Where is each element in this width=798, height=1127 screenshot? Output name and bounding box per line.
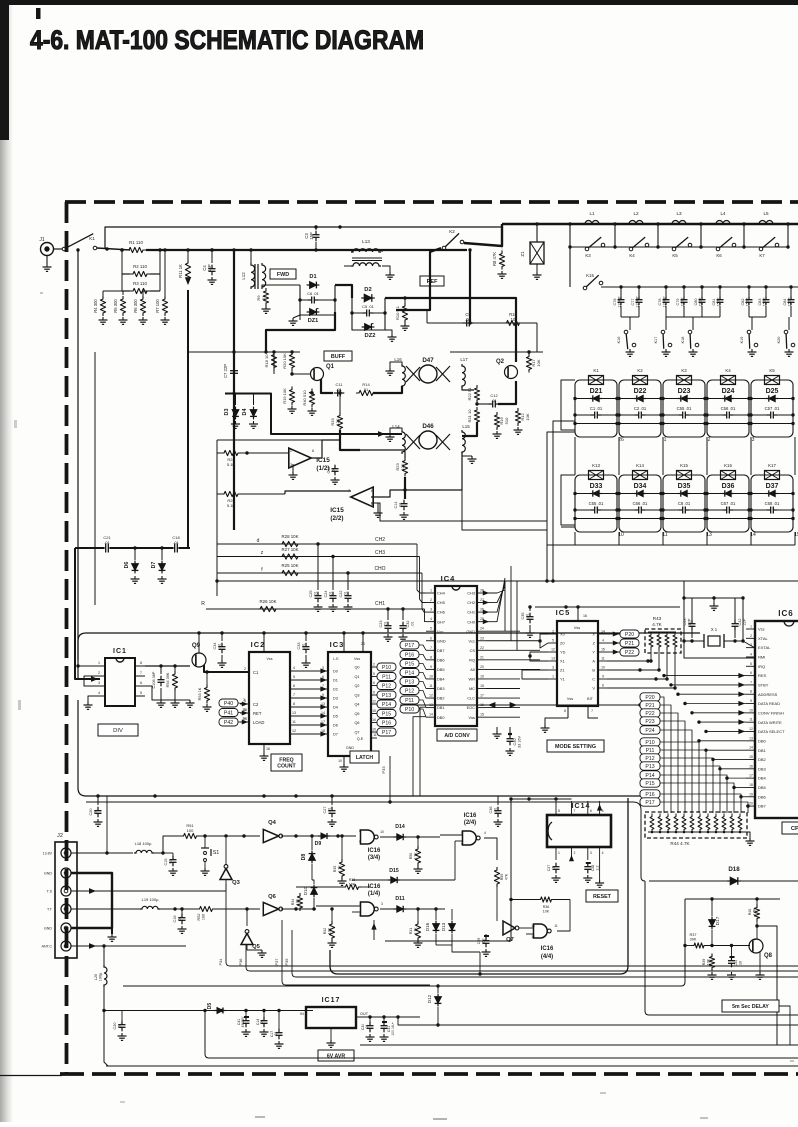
J2 pin GND xyxy=(61,923,71,933)
capacitor C12 .01 xyxy=(492,401,494,408)
svg-text:4: 4 xyxy=(602,851,604,855)
svg-text:LATCH: LATCH xyxy=(356,755,373,761)
tag column P17-P10 to IC4 xyxy=(400,641,419,649)
wires crystal to CPU pins xyxy=(743,641,755,648)
svg-text:WR: WR xyxy=(469,677,476,682)
svg-text:P22: P22 xyxy=(645,711,654,717)
svg-text:6: 6 xyxy=(293,684,295,688)
tag P41 xyxy=(219,709,238,717)
svg-text:P24: P24 xyxy=(645,728,654,734)
svg-text:GND: GND xyxy=(44,927,52,931)
svg-text:BUFF: BUFF xyxy=(331,354,346,360)
svg-text:5: 5 xyxy=(430,627,432,631)
svg-text:R1 110: R1 110 xyxy=(129,240,143,245)
IC6 pin 13 DB0 xyxy=(746,740,755,742)
svg-text:BIT: BIT xyxy=(587,697,594,701)
svg-text:C14.01: C14.01 xyxy=(394,502,403,509)
svg-text:R11 1K: R11 1K xyxy=(178,264,183,278)
svg-text:R44 4.7K: R44 4.7K xyxy=(670,841,690,846)
svg-text:P14: P14 xyxy=(405,670,414,676)
resistor R33 12K xyxy=(337,413,342,432)
wire R1 to right xyxy=(146,249,467,251)
IC4 pin R20 xyxy=(477,668,486,670)
svg-text:C34.01: C34.01 xyxy=(213,643,222,650)
IC4 pin R22 xyxy=(477,649,486,651)
IC6 pin 20 DB7 xyxy=(746,805,755,807)
svg-text:R3410K: R3410K xyxy=(291,898,299,905)
resistor R27 10K xyxy=(279,554,301,559)
svg-text:D11: D11 xyxy=(395,896,404,902)
svg-text:19: 19 xyxy=(749,792,753,796)
svg-text:17: 17 xyxy=(480,694,484,698)
tag P17 xyxy=(640,798,660,806)
capacitor C22 .01 xyxy=(345,595,352,597)
capacitor C14 .01 xyxy=(263,1011,265,1019)
diode D21 xyxy=(593,395,599,401)
IC5 pin Y xyxy=(598,651,607,653)
svg-text:D10: D10 xyxy=(303,886,308,895)
svg-text:Y1: Y1 xyxy=(560,677,565,682)
diode D13 xyxy=(449,924,456,931)
svg-text:L3: L3 xyxy=(676,211,682,216)
svg-text:K4: K4 xyxy=(725,368,731,373)
dashed border bottom xyxy=(60,1072,798,1076)
svg-text:23: 23 xyxy=(480,636,484,640)
switch S1 pushbutton xyxy=(204,841,206,848)
capacitor C44 10 xyxy=(731,946,733,959)
svg-text:R27 10K: R27 10K xyxy=(281,547,298,552)
svg-text:RET: RET xyxy=(253,711,262,716)
IC4 pin L14 xyxy=(426,716,435,718)
svg-text:C65 .01: C65 .01 xyxy=(589,501,604,506)
svg-text:3: 3 xyxy=(590,851,592,855)
ground C106 R54 xyxy=(160,700,162,703)
svg-text:D2: D2 xyxy=(364,287,371,293)
IC4 pin R18 xyxy=(477,688,486,690)
switch K19 xyxy=(751,317,753,330)
wire FWD det rails xyxy=(262,285,300,287)
Vcc rail dots xyxy=(262,631,265,634)
R44 ground xyxy=(744,832,750,838)
svg-text:d: d xyxy=(257,538,260,544)
R44 bottom bus xyxy=(648,831,744,833)
svg-text:L5: L5 xyxy=(763,211,769,216)
dashed border left xyxy=(65,202,69,1074)
bold wire K2 to bus xyxy=(464,224,502,246)
resistor R28 10K xyxy=(279,541,301,546)
svg-text:R3 110: R3 110 xyxy=(133,281,147,286)
svg-text:P36: P36 xyxy=(238,959,243,966)
svg-text:Q6: Q6 xyxy=(268,894,277,900)
IC14 bottom pins xyxy=(555,847,557,860)
svg-text:18: 18 xyxy=(480,684,484,688)
relay cell K15/D35 xyxy=(663,475,705,532)
svg-text:1: 1 xyxy=(750,625,752,629)
svg-text:R52100: R52100 xyxy=(197,914,206,921)
bold wire R11 drop xyxy=(187,290,189,548)
long rail y1066 xyxy=(106,1065,798,1067)
IC4 pin R25 xyxy=(477,621,486,623)
svg-text:R16510: R16510 xyxy=(499,417,509,425)
IC5 pin V xyxy=(598,687,607,689)
svg-text:P20: P20 xyxy=(625,632,634,638)
bold vertical R22R21 xyxy=(476,385,478,387)
inductor L1 xyxy=(583,221,601,225)
svg-text:Vss: Vss xyxy=(267,657,273,661)
svg-text:Q1: Q1 xyxy=(326,364,335,370)
svg-text:X0: X0 xyxy=(560,632,566,637)
svg-text:2: 2 xyxy=(708,437,711,443)
wire opamp2 plus gnd xyxy=(371,503,378,510)
svg-text:P16: P16 xyxy=(382,720,391,726)
svg-text:K15: K15 xyxy=(680,463,688,468)
bold wire R23 to opamp2 xyxy=(404,477,406,499)
wire left bus v2 xyxy=(94,352,96,605)
svg-text:21: 21 xyxy=(480,655,484,659)
svg-text:IC5: IC5 xyxy=(556,608,571,617)
IC14 box xyxy=(547,815,611,847)
svg-text:C22.01: C22.01 xyxy=(339,591,348,598)
svg-text:T.T: T.T xyxy=(47,908,53,912)
svg-text:R3610K: R3610K xyxy=(349,878,356,886)
wire rail y580 to crystal rail xyxy=(683,581,685,598)
svg-text:Y: Y xyxy=(592,650,595,655)
switch K18 xyxy=(692,317,694,330)
bus drop 1 xyxy=(569,224,571,247)
svg-text:GH7: GH7 xyxy=(437,619,445,624)
svg-text:6: 6 xyxy=(373,681,375,685)
svg-text:R53 1K: R53 1K xyxy=(198,687,202,700)
IC4 pin L13 xyxy=(426,707,435,709)
dashed border top xyxy=(65,200,798,204)
svg-text:R2312K: R2312K xyxy=(395,463,405,471)
resistor R19 10K xyxy=(289,387,294,406)
svg-text:K18: K18 xyxy=(681,337,685,344)
svg-text:C8 .01: C8 .01 xyxy=(678,501,691,506)
diode D25 xyxy=(769,395,775,401)
svg-text:IC17: IC17 xyxy=(322,997,341,1004)
svg-text:P10: P10 xyxy=(405,707,414,713)
svg-text:12: 12 xyxy=(749,727,753,731)
svg-text:11: 11 xyxy=(554,924,558,928)
svg-text:B: B xyxy=(592,668,595,673)
svg-text:K3: K3 xyxy=(681,368,687,373)
svg-text:P22: P22 xyxy=(625,650,634,656)
svg-text:C23.01: C23.01 xyxy=(379,621,388,628)
resistor R23 12K xyxy=(402,458,407,477)
resistor R5 300 xyxy=(120,296,125,316)
resistor R44-7 xyxy=(698,814,702,833)
IC6 pin 10 CONV FINISH xyxy=(746,712,755,714)
IC5 pin Y1 xyxy=(548,678,557,680)
svg-text:J1: J1 xyxy=(39,237,45,243)
svg-text:R28 10K: R28 10K xyxy=(281,534,298,539)
IC5 pin Z0 xyxy=(548,642,557,644)
svg-text:P13: P13 xyxy=(405,679,414,685)
svg-text:L17: L17 xyxy=(460,357,468,362)
svg-text:DIV: DIV xyxy=(113,728,123,734)
svg-text:K15: K15 xyxy=(586,273,594,278)
wire C9 R15 row xyxy=(427,322,537,324)
svg-text:DATA SELECT: DATA SELECT xyxy=(758,729,785,734)
svg-text:S1: S1 xyxy=(213,850,220,856)
IC6 pin 16 DB3 xyxy=(746,768,755,770)
svg-text:C: C xyxy=(592,677,595,682)
svg-text:20: 20 xyxy=(749,802,753,806)
cell bus D25 xyxy=(751,423,793,425)
resistor R44-2 xyxy=(658,814,662,833)
wire NAND4 out xyxy=(557,900,570,932)
capacitor C57 xyxy=(770,412,772,419)
capacitor C9 .01 xyxy=(466,320,468,327)
svg-text:10: 10 xyxy=(380,830,384,834)
svg-text:4: 4 xyxy=(430,617,432,621)
IC6 pin 5 IRQ xyxy=(746,665,755,667)
matrix long bus row2 xyxy=(561,526,575,528)
bold left bus x234 xyxy=(233,250,235,530)
svg-text:14: 14 xyxy=(429,713,433,717)
svg-text:FREQ: FREQ xyxy=(279,757,293,763)
svg-text:IC2: IC2 xyxy=(251,640,266,649)
wire IC15 area to matrix row2 xyxy=(371,503,547,521)
J2 pin 13.8V xyxy=(61,848,71,858)
svg-text:YD: YD xyxy=(560,650,566,655)
svg-text:1: 1 xyxy=(430,589,432,593)
resistor R26 10K xyxy=(257,606,279,611)
IC4 box xyxy=(435,586,477,726)
bold wire L14 left xyxy=(376,433,402,435)
svg-text:GND: GND xyxy=(44,872,52,876)
wire top rail y227 xyxy=(105,227,502,249)
relay cell K3/D23 xyxy=(663,380,705,437)
svg-text:D16: D16 xyxy=(425,922,430,931)
svg-text:D35: D35 xyxy=(678,483,691,490)
arrow IC14 pin5 xyxy=(598,805,602,810)
wire rail y607 xyxy=(535,606,680,608)
wire reg input rail dots xyxy=(220,1009,223,1012)
svg-text:12: 12 xyxy=(372,700,376,704)
svg-text:CH5: CH5 xyxy=(437,600,445,605)
svg-text:C7 22P: C7 22P xyxy=(223,364,228,378)
transistor Q9 xyxy=(192,653,206,667)
fan wires tags to verticals xyxy=(660,697,664,813)
svg-text:D23: D23 xyxy=(678,388,691,395)
IC4 pin L12 xyxy=(426,697,435,699)
tag P12 (left col) xyxy=(377,682,396,690)
capacitor C5 .01 xyxy=(366,310,368,317)
svg-text:K4: K4 xyxy=(629,253,635,258)
svg-text:12: 12 xyxy=(531,935,535,939)
wire delay box corner xyxy=(779,1006,790,1045)
capacitor C21 .01 xyxy=(104,543,110,553)
svg-text:D6: D6 xyxy=(124,562,130,569)
matrix row2 bottom stubs xyxy=(574,532,576,545)
svg-text:15: 15 xyxy=(601,648,605,652)
svg-text:P10: P10 xyxy=(645,740,654,746)
bold wire Q1 emitter to C11 xyxy=(321,379,333,393)
svg-text:R25 10K: R25 10K xyxy=(281,563,298,568)
transistor Q2 xyxy=(505,366,518,379)
svg-text:CH2: CH2 xyxy=(467,600,475,605)
svg-text:Q5: Q5 xyxy=(354,712,359,716)
capacitor C15 .01 xyxy=(172,853,174,857)
resistor R43-4 xyxy=(673,632,677,650)
IC5 pin YD xyxy=(548,651,557,653)
IC6 pin 12 DATA SELECT xyxy=(746,731,755,733)
capacitor C80 xyxy=(701,287,703,297)
resistor R44-8 xyxy=(706,814,710,833)
svg-text:DB1: DB1 xyxy=(437,705,445,710)
svg-text:3: 3 xyxy=(243,698,245,702)
wire capbank rail xyxy=(601,286,798,288)
svg-text:11: 11 xyxy=(373,733,377,737)
R43 top bus xyxy=(648,631,676,633)
svg-text:R5547K: R5547K xyxy=(500,873,508,880)
tag P16 xyxy=(640,790,660,798)
wire Q4 to D9 xyxy=(296,835,320,837)
capacitor C76 xyxy=(620,287,622,297)
IC4 pin R27 xyxy=(477,602,486,604)
svg-text:9: 9 xyxy=(373,691,375,695)
svg-text:L1: L1 xyxy=(589,211,595,216)
IC6 pin 9 DATA READ xyxy=(746,703,755,705)
svg-text:RES: RES xyxy=(758,673,767,678)
capacitor C79 xyxy=(683,287,685,297)
wire reg out right xyxy=(398,1017,438,1025)
svg-text:L13: L13 xyxy=(362,239,370,244)
wire T.S arrow xyxy=(71,890,226,892)
svg-text:R3610K: R3610K xyxy=(543,905,550,913)
capacitor C83 xyxy=(765,287,767,297)
svg-text:8: 8 xyxy=(293,702,295,706)
svg-text:D1: D1 xyxy=(333,679,338,683)
bus drop 2 xyxy=(614,224,616,247)
tag P10 (left col) xyxy=(377,663,396,671)
svg-text:9: 9 xyxy=(359,840,361,844)
wires IC5 X/Z/Y to tags xyxy=(620,630,639,638)
capacitor C55 xyxy=(682,412,684,419)
wires IC4 right CH returns xyxy=(486,590,505,593)
svg-text:5: 5 xyxy=(602,809,604,813)
svg-text:GND: GND xyxy=(346,746,354,750)
svg-text:D0: D0 xyxy=(333,670,338,674)
IC4 pin R15 xyxy=(477,716,486,718)
svg-text:1: 1 xyxy=(558,851,560,855)
svg-text:Q7: Q7 xyxy=(506,937,514,943)
label box BUFF xyxy=(324,351,352,361)
wires IC4 bottom-left down xyxy=(420,707,426,796)
inductor L19 xyxy=(140,906,160,909)
resistor R36 10K xyxy=(343,884,362,889)
J2 pin T.S xyxy=(61,886,71,896)
svg-text:2: 2 xyxy=(574,851,576,855)
svg-text:10: 10 xyxy=(338,759,342,763)
svg-text:D3: D3 xyxy=(333,697,338,701)
svg-text:C4222P: C4222P xyxy=(738,618,747,625)
diode D24 xyxy=(725,395,731,401)
svg-text:IC16: IC16 xyxy=(464,813,477,819)
svg-text:R245.1K: R245.1K xyxy=(227,457,236,467)
svg-text:3: 3 xyxy=(381,902,383,906)
wire long control row y705 xyxy=(400,704,640,706)
wires to R4-R7 xyxy=(102,291,104,296)
svg-text:DB0: DB0 xyxy=(758,738,767,743)
relay cell K2/D22 xyxy=(619,380,661,437)
wire Q2 top rail xyxy=(450,351,543,353)
svg-text:X1: X1 xyxy=(560,659,565,664)
svg-text:DB6: DB6 xyxy=(758,794,767,799)
svg-text:P42: P42 xyxy=(224,720,233,726)
svg-text:14: 14 xyxy=(242,717,246,721)
svg-text:STBY: STBY xyxy=(758,683,769,688)
svg-text:(2/2): (2/2) xyxy=(330,515,343,522)
page crease line bottom-left xyxy=(0,1075,62,1077)
IC4 pin L7 xyxy=(426,649,435,651)
R43 bottoms to wires xyxy=(650,650,652,661)
svg-text:RQ: RQ xyxy=(469,657,475,662)
svg-text:DB3: DB3 xyxy=(437,686,445,691)
bold wire C21 C18 line xyxy=(75,547,190,549)
svg-text:R404.7K: R404.7K xyxy=(748,908,756,916)
grounds R4-R7 xyxy=(102,317,104,320)
svg-text:C30.01: C30.01 xyxy=(361,1024,369,1030)
ground L13 secondary xyxy=(382,266,390,272)
svg-text:(2/4): (2/4) xyxy=(464,820,476,826)
svg-text:P14: P14 xyxy=(645,773,654,779)
resistor R39 10K xyxy=(709,954,714,971)
svg-text:D15: D15 xyxy=(389,868,399,874)
inductor L18 xyxy=(134,850,154,853)
svg-text:REF: REF xyxy=(427,279,438,285)
svg-text:C35.01: C35.01 xyxy=(521,613,530,620)
switch K5 xyxy=(672,247,676,251)
svg-text:DB1: DB1 xyxy=(758,748,767,753)
resistor R21 10 xyxy=(474,407,479,425)
IC4 pin L3 xyxy=(426,611,435,613)
svg-text:2: 2 xyxy=(290,449,292,453)
svg-text:6: 6 xyxy=(371,489,373,493)
svg-text:IN: IN xyxy=(300,1012,304,1016)
resistor R37 39K xyxy=(691,943,707,948)
op-amp IC15 1/2 xyxy=(289,448,311,468)
bus drop 3 xyxy=(657,224,659,247)
switch K6 xyxy=(716,247,720,251)
svg-text:P15: P15 xyxy=(645,781,654,787)
switch K7 xyxy=(759,247,763,251)
bus drop 6 xyxy=(787,224,789,247)
bus drop 5 xyxy=(743,224,745,247)
svg-text:K3: K3 xyxy=(585,253,591,258)
svg-text:5: 5 xyxy=(750,662,752,666)
svg-text:15: 15 xyxy=(480,713,484,717)
wire Q8 collector branch xyxy=(757,926,777,1045)
page top edge strip xyxy=(0,0,798,5)
resistor R20 10K xyxy=(289,352,294,371)
svg-text:13.8V: 13.8V xyxy=(43,852,53,856)
wire NAND1 out to D11 xyxy=(380,908,394,910)
IC17 box xyxy=(306,1007,356,1028)
svg-text:6: 6 xyxy=(750,671,752,675)
svg-text:C67 .01: C67 .01 xyxy=(721,501,736,506)
bold wire left drop to IC1 xyxy=(75,548,100,679)
IC4 pin R23 xyxy=(477,640,486,642)
relay cell K4/D24 xyxy=(707,380,749,437)
resistor R10 5.1 xyxy=(402,303,407,323)
IC6 pin 19 DB6 xyxy=(746,796,755,798)
IC5 pin A xyxy=(598,660,607,662)
wire T.T to L19 xyxy=(71,908,140,910)
svg-text:3: 3 xyxy=(752,437,755,443)
